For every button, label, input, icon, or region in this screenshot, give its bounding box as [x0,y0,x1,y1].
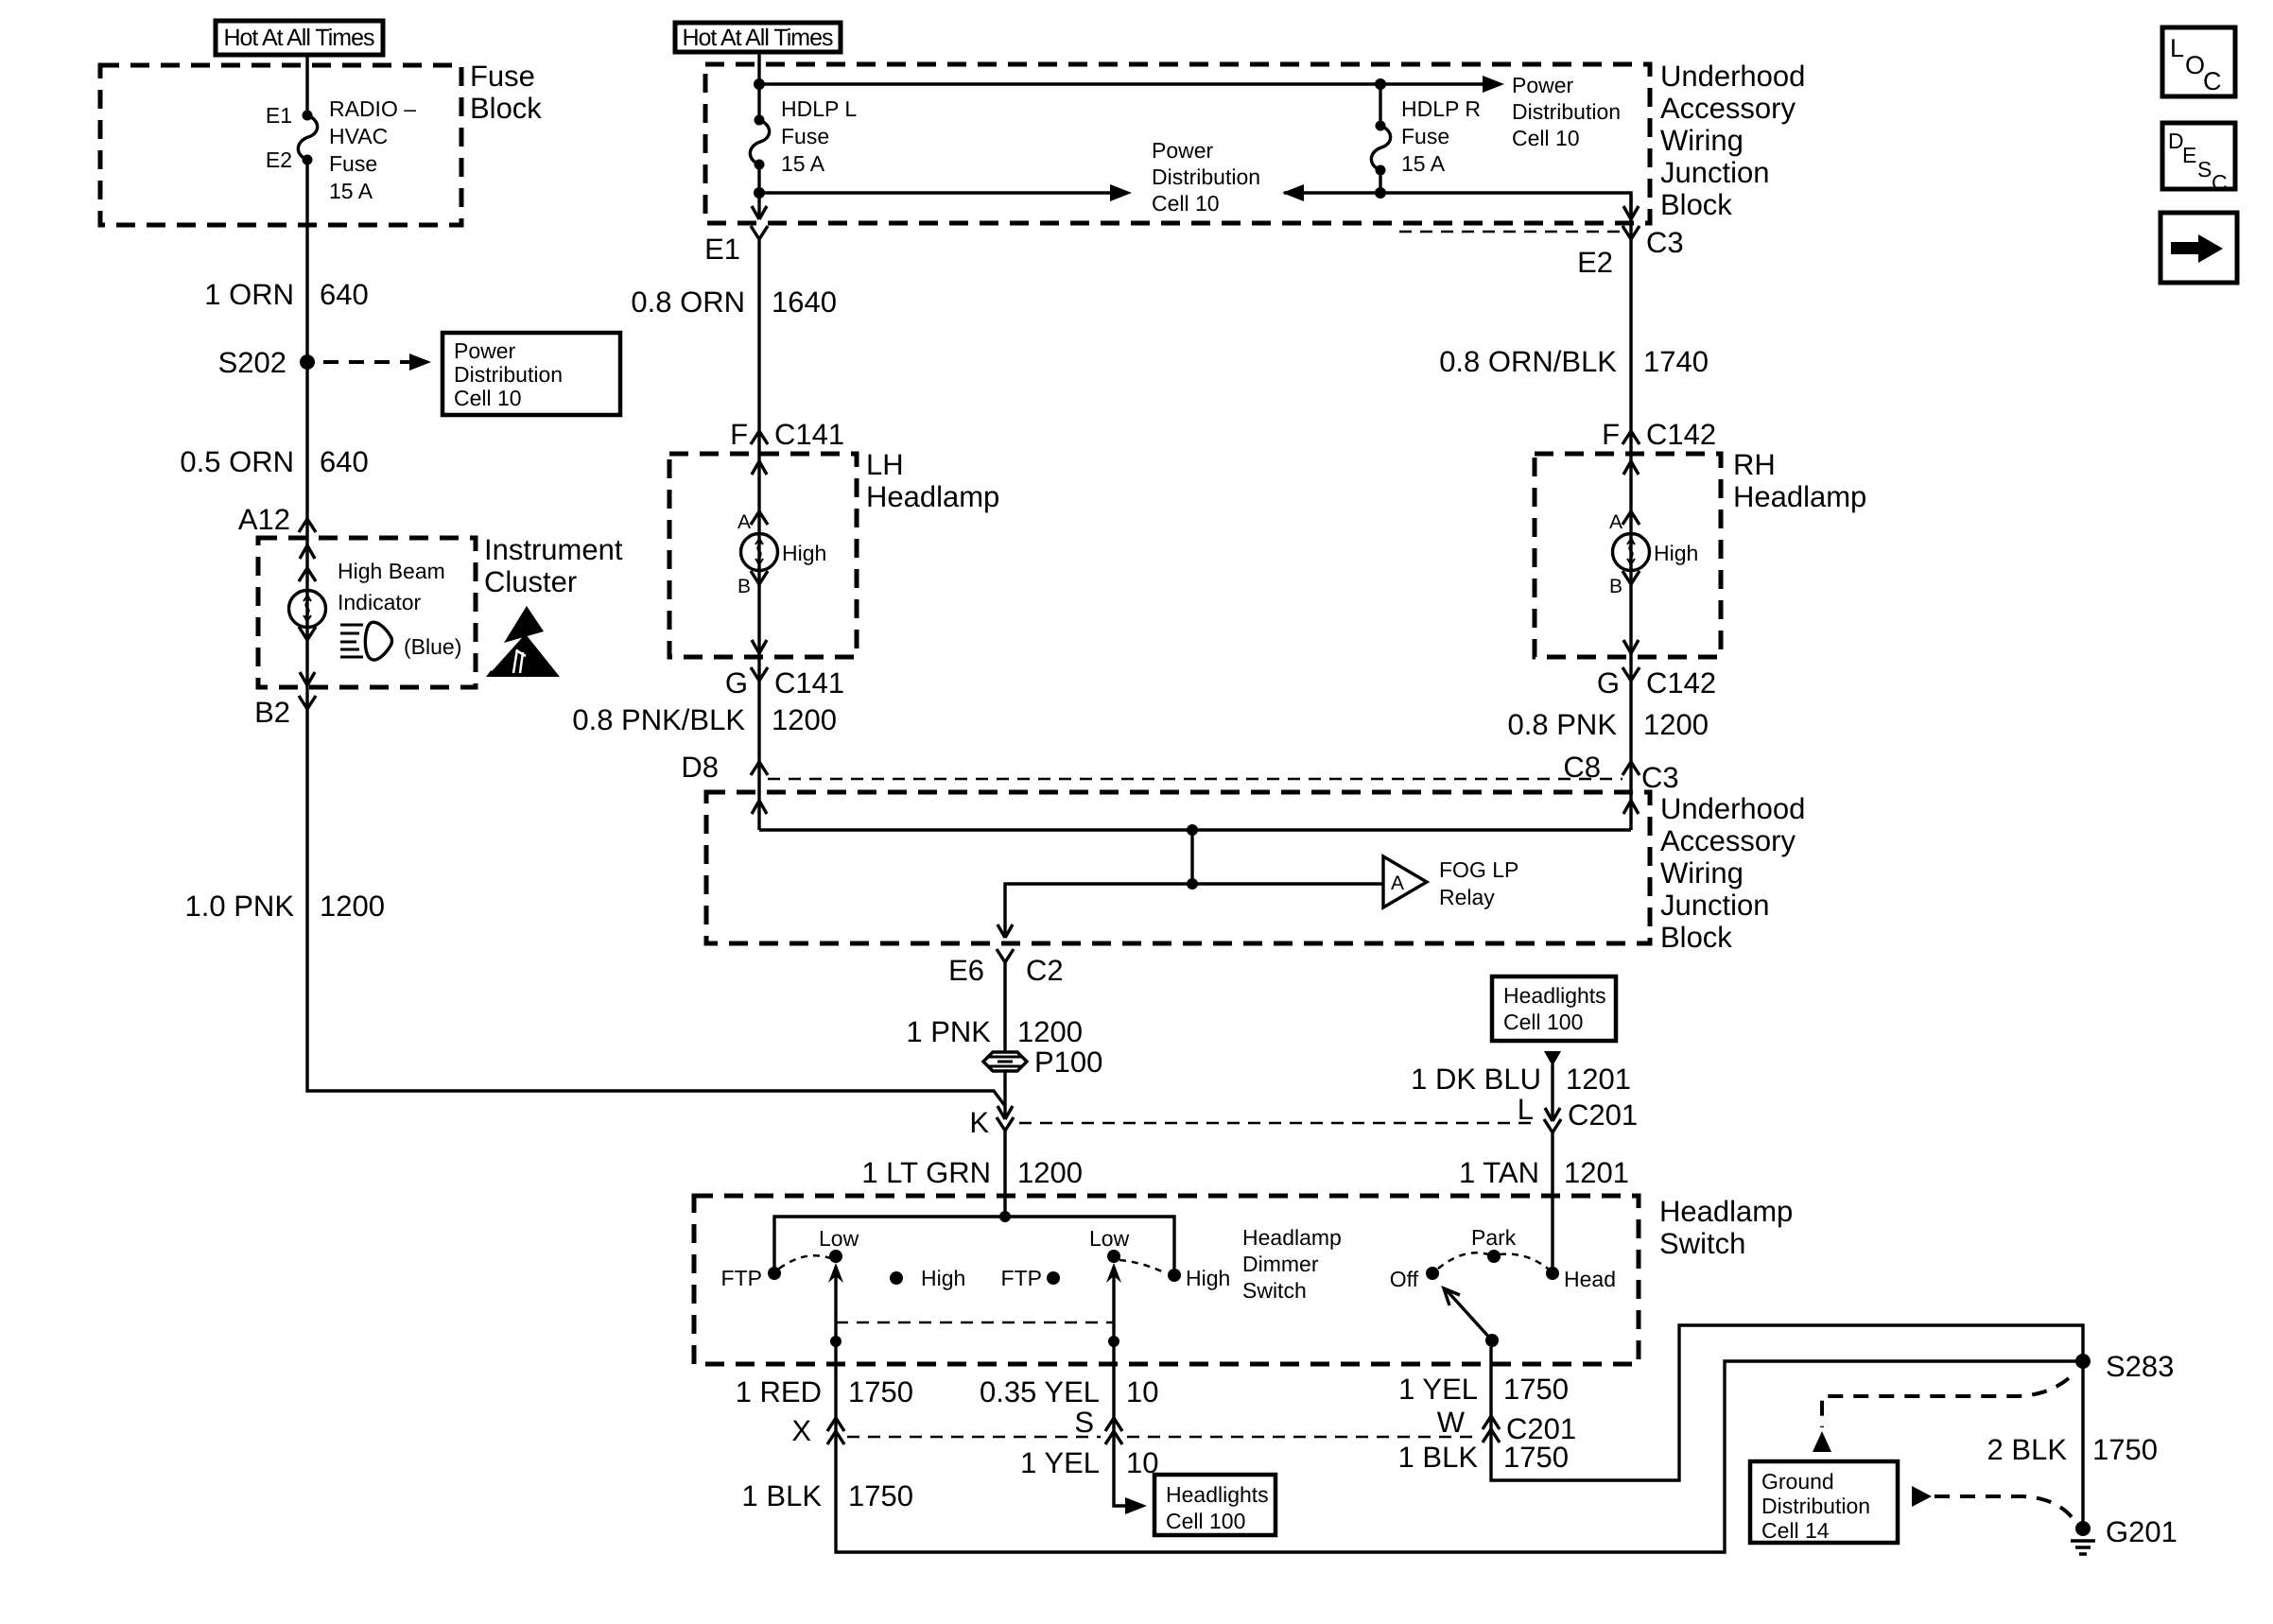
svg-text:G201: G201 [2106,1515,2178,1548]
svg-text:Distribution: Distribution [1512,99,1621,124]
svg-text:Hot At All Times: Hot At All Times [223,25,374,51]
svg-text:Block: Block [1660,921,1732,954]
svg-text:Cluster: Cluster [484,565,577,598]
svg-text:640: 640 [320,445,369,478]
svg-text:Underhood: Underhood [1660,792,1805,825]
svg-text:1.0 PNK: 1.0 PNK [185,890,295,923]
svg-text:0.8 PNK/BLK: 0.8 PNK/BLK [572,703,745,736]
svg-text:15 A: 15 A [781,151,825,176]
svg-text:Wiring: Wiring [1660,124,1744,157]
svg-text:1 RED: 1 RED [736,1375,822,1408]
svg-text:Headlights: Headlights [1166,1482,1269,1507]
svg-text:S: S [1074,1406,1094,1439]
svg-text:G: G [725,666,748,700]
svg-text:Headlamp: Headlamp [866,480,999,513]
svg-text:640: 640 [320,278,369,311]
svg-text:Ground: Ground [1761,1469,1834,1494]
svg-text:C: C [2212,170,2228,195]
svg-text:Cell 14: Cell 14 [1761,1518,1830,1543]
svg-text:C3: C3 [1641,761,1679,794]
svg-text:A12: A12 [238,503,290,536]
svg-text:C201: C201 [1568,1098,1638,1132]
svg-text:D8: D8 [681,751,719,784]
svg-text:1 BLK: 1 BLK [742,1479,823,1512]
svg-text:High: High [1654,541,1698,565]
svg-text:1200: 1200 [1017,1156,1083,1189]
svg-text:S283: S283 [2106,1350,2174,1383]
svg-text:1750: 1750 [2092,1433,2158,1466]
svg-text:HDLP R: HDLP R [1401,96,1481,121]
svg-text:Junction: Junction [1660,889,1769,922]
svg-text:1750: 1750 [1503,1373,1569,1406]
svg-text:Head: Head [1564,1267,1616,1291]
svg-text:Cell 100: Cell 100 [1503,1010,1583,1034]
svg-text:S: S [2197,157,2212,181]
svg-text:Headlights: Headlights [1503,983,1606,1008]
svg-text:Fuse: Fuse [1401,124,1449,148]
svg-text:Distribution: Distribution [1152,164,1260,189]
svg-text:Headlamp: Headlamp [1242,1225,1342,1250]
svg-text:0.5 ORN: 0.5 ORN [180,445,294,478]
svg-text:0.8 ORN/BLK: 0.8 ORN/BLK [1439,345,1617,378]
svg-text:0.8 PNK: 0.8 PNK [1508,708,1618,741]
svg-text:E1: E1 [266,103,292,128]
svg-text:Headlamp: Headlamp [1733,480,1866,513]
svg-text:X: X [791,1414,811,1447]
svg-text:1 BLK: 1 BLK [1398,1441,1479,1474]
svg-text:HVAC: HVAC [329,124,388,148]
svg-text:F: F [1602,418,1620,451]
svg-text:0.35 YEL: 0.35 YEL [980,1375,1100,1408]
svg-text:S202: S202 [218,346,286,379]
svg-text:C141: C141 [774,666,844,700]
svg-text:Indicator: Indicator [338,590,422,614]
svg-text:Junction: Junction [1660,156,1769,189]
svg-text:1750: 1750 [1503,1441,1569,1474]
svg-text:LH: LH [866,448,904,481]
svg-text:Headlamp: Headlamp [1659,1195,1793,1228]
svg-text:W: W [1437,1406,1466,1439]
svg-text:C141: C141 [774,418,844,451]
svg-text:FOG LP: FOG LP [1439,857,1518,882]
svg-text:0.8 ORN: 0.8 ORN [631,285,745,319]
svg-text:Switch: Switch [1242,1278,1307,1303]
svg-text:1200: 1200 [1017,1015,1083,1048]
svg-text:1740: 1740 [1643,345,1709,378]
svg-text:Underhood: Underhood [1660,60,1805,93]
svg-text:Off: Off [1390,1267,1419,1291]
svg-text:Instrument: Instrument [484,533,623,566]
svg-text:Low: Low [819,1226,859,1251]
svg-text:Switch: Switch [1659,1227,1745,1260]
svg-text:15 A: 15 A [1401,151,1446,176]
svg-text:1750: 1750 [848,1375,913,1408]
svg-text:1200: 1200 [1643,708,1709,741]
svg-text:1 ORN: 1 ORN [204,278,294,311]
svg-text:Low: Low [1089,1226,1130,1251]
svg-text:Distribution: Distribution [454,362,563,387]
svg-text:Fuse: Fuse [470,60,535,93]
svg-text:K: K [969,1106,989,1139]
svg-text:15 A: 15 A [329,179,373,203]
svg-text:Cell 100: Cell 100 [1166,1509,1245,1533]
svg-text:C: C [2203,67,2222,95]
svg-text:C142: C142 [1646,418,1716,451]
svg-text:1 TAN: 1 TAN [1459,1156,1539,1189]
svg-text:B: B [737,576,751,597]
svg-text:E6: E6 [948,954,984,987]
svg-text:1201: 1201 [1564,1156,1629,1189]
svg-text:Dimmer: Dimmer [1242,1252,1319,1276]
svg-text:Cell 10: Cell 10 [1512,126,1580,150]
svg-text:1 YEL: 1 YEL [1020,1446,1100,1479]
svg-text:Power: Power [454,338,516,363]
svg-text:L: L [1518,1093,1534,1126]
svg-text:1201: 1201 [1566,1063,1631,1096]
svg-text:High Beam: High Beam [338,559,445,583]
svg-text:Wiring: Wiring [1660,856,1744,890]
svg-text:1200: 1200 [320,890,385,923]
svg-text:RADIO –: RADIO – [329,96,416,121]
svg-text:10: 10 [1126,1375,1158,1408]
svg-text:O: O [2185,51,2205,79]
svg-text:Cell 10: Cell 10 [454,386,522,410]
svg-text:Cell 10: Cell 10 [1152,191,1220,216]
svg-text:F: F [730,418,748,451]
svg-text:High: High [921,1266,965,1290]
svg-text:Fuse: Fuse [781,124,829,148]
svg-text:(Blue): (Blue) [404,634,461,659]
svg-text:1640: 1640 [772,285,837,319]
svg-text:G: G [1597,666,1620,700]
svg-text:Fuse: Fuse [329,151,377,176]
svg-text:C3: C3 [1646,226,1684,259]
svg-text:B2: B2 [254,696,290,729]
svg-text:E2: E2 [266,147,292,172]
svg-text:HDLP L: HDLP L [781,96,857,121]
svg-text:E1: E1 [704,233,740,266]
svg-text:Power: Power [1152,138,1214,163]
svg-text:Hot At All Times: Hot At All Times [682,25,833,51]
svg-text:Power: Power [1512,73,1574,97]
svg-text:Park: Park [1471,1225,1517,1250]
svg-text:FTP: FTP [721,1266,762,1290]
svg-text:1 PNK: 1 PNK [906,1015,991,1048]
svg-text:A: A [1609,511,1622,533]
svg-text:C142: C142 [1646,666,1716,700]
svg-text:FTP: FTP [1001,1266,1042,1290]
svg-text:Relay: Relay [1439,885,1495,909]
svg-text:High: High [1186,1266,1230,1290]
svg-text:Accessory: Accessory [1660,824,1796,857]
svg-text:Block: Block [470,92,542,125]
svg-text:A: A [737,511,751,533]
svg-text:High: High [782,541,826,565]
svg-text:C2: C2 [1026,954,1064,987]
svg-text:B: B [1609,576,1622,597]
svg-text:1 YEL: 1 YEL [1398,1373,1478,1406]
svg-text:Distribution: Distribution [1761,1494,1870,1518]
svg-text:2 BLK: 2 BLK [1987,1433,2068,1466]
svg-text:E2: E2 [1577,246,1613,279]
svg-text:1750: 1750 [848,1479,913,1512]
svg-text:1 LT GRN: 1 LT GRN [861,1156,991,1189]
svg-text:E: E [2182,143,2196,167]
svg-text:1200: 1200 [772,703,837,736]
svg-text:1 DK BLU: 1 DK BLU [1411,1063,1541,1096]
svg-text:RH: RH [1733,448,1776,481]
svg-text:Block: Block [1660,188,1732,221]
svg-text:A: A [1391,872,1404,894]
svg-text:L: L [2170,34,2184,62]
svg-text:P100: P100 [1034,1045,1102,1079]
svg-text:Accessory: Accessory [1660,92,1796,125]
